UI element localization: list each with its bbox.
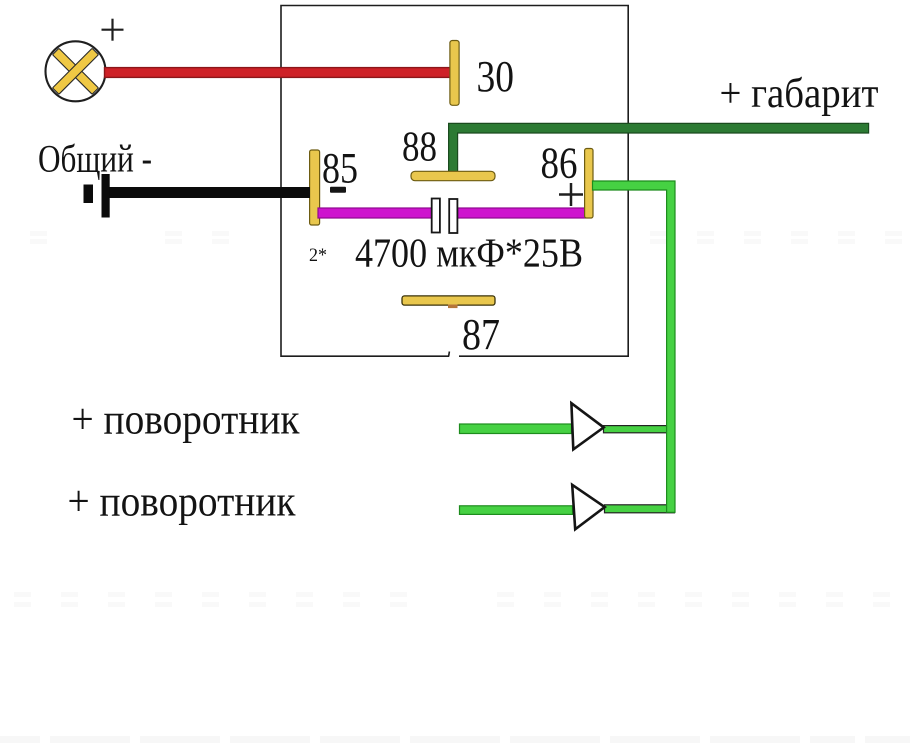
- wire green bright (86 to turn signals): [460, 424, 573, 514]
- svg-text:88: 88: [402, 125, 437, 171]
- contact 30 bar: [450, 41, 459, 106]
- contact 88 bar: [411, 171, 495, 180]
- svg-text:Общий -: Общий -: [38, 138, 152, 181]
- contact 86 bar: [585, 149, 593, 219]
- wire magenta (capacitor link): [318, 208, 586, 218]
- svg-text:30: 30: [477, 52, 515, 101]
- wire green dark (габарит): [449, 123, 869, 172]
- svg-text:+ поворотник: + поворотник: [72, 397, 300, 444]
- contact 87 bar: [402, 296, 495, 308]
- wire black (Общий): [105, 187, 310, 198]
- minus of 85: [330, 187, 346, 193]
- lamp HL1: [46, 41, 106, 101]
- contact 85 bar: [310, 150, 320, 225]
- svg-text:+ габарит: + габарит: [720, 71, 879, 117]
- svg-text:+ поворотник: + поворотник: [68, 479, 296, 526]
- svg-text:86: 86: [541, 139, 578, 188]
- arrow D2: [572, 485, 605, 530]
- capacitor C1 plates: [432, 199, 458, 234]
- svg-text:85: 85: [322, 146, 358, 193]
- svg-text:4700 мкФ*25В: 4700 мкФ*25В: [355, 230, 583, 276]
- wire red (lamp to contact 30): [105, 68, 451, 78]
- ground terminal: [84, 174, 110, 218]
- plus sign of lamp: [102, 19, 124, 41]
- svg-text:87: 87: [462, 310, 500, 359]
- arrow D1: [571, 403, 603, 449]
- plus of 86: [559, 183, 583, 206]
- watermark dash rows: [0, 231, 910, 743]
- relay box K1: [281, 6, 628, 357]
- svg-text:2*: 2*: [309, 245, 327, 266]
